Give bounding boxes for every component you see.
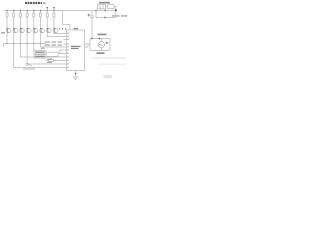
resistor R4 bbox=[26, 11, 28, 28]
wire column1 to bus bbox=[6, 33, 8, 43]
transistor VT7 bbox=[47, 28, 52, 33]
wire secondary line bbox=[96, 11, 116, 18]
IC U1 inner text bbox=[71, 46, 81, 49]
resistor R7 bbox=[46, 11, 48, 28]
wire column7 L-route to IC pin bbox=[47, 33, 63, 36]
AC source plus sign bbox=[106, 42, 108, 44]
resistor R5 bbox=[33, 11, 35, 28]
wire column2 L-route to IC pin bbox=[14, 33, 64, 67]
AC source label above bbox=[98, 34, 107, 36]
node junction dots on bus bbox=[6, 10, 105, 11]
wire regulator output bbox=[114, 6, 116, 15]
wire column5 to label box bbox=[33, 33, 35, 50]
wire box K1 to IC pin bbox=[46, 50, 64, 52]
node dot regulator output bbox=[115, 9, 117, 11]
AC loop right wire bbox=[109, 39, 111, 51]
transistor VT5 bbox=[33, 28, 38, 33]
node dots atop riser stubs bbox=[47, 7, 55, 8]
label output text bbox=[112, 15, 128, 16]
wire VCC drop to IC bbox=[63, 11, 71, 31]
label box K2 bbox=[34, 55, 46, 58]
wire left common bus bbox=[4, 44, 47, 47]
label box K1 bbox=[34, 51, 46, 54]
AC loop bottom wire bbox=[90, 50, 110, 52]
IC U1 pin number marks bbox=[67, 33, 68, 68]
wire IC ground stem bbox=[75, 71, 77, 78]
IC U1 box bbox=[67, 30, 85, 71]
AC loop top wire bbox=[90, 38, 110, 40]
title text bbox=[25, 2, 45, 4]
node dots on common bus bbox=[6, 43, 41, 44]
resistor small on bottom run bbox=[49, 60, 54, 62]
transformer T1 text above bbox=[99, 2, 110, 4]
resistor R1 bbox=[6, 11, 8, 28]
watermark faint streak row1 bbox=[92, 57, 126, 59]
transistor VT1 bbox=[6, 28, 11, 33]
node dot on ground stem bbox=[75, 73, 76, 74]
transformer T1 box bbox=[98, 4, 106, 9]
ground symbol bbox=[73, 77, 78, 79]
label VT designator text bbox=[1, 32, 5, 33]
transistor VT6 bbox=[40, 28, 45, 33]
net label texts near IC left bbox=[41, 41, 62, 63]
capacitor C1 plus sign bbox=[88, 14, 90, 16]
node dot on secondary line bbox=[104, 17, 105, 18]
switch S1 on bottom line bbox=[26, 63, 32, 66]
capacitor C1 bbox=[90, 11, 94, 39]
node dots on AC loop bbox=[91, 38, 100, 39]
wire T1 legs to bus bbox=[101, 9, 106, 11]
AC loop left wire bbox=[89, 39, 91, 51]
wire between T1 and regulator bbox=[106, 5, 108, 7]
resistor R8 bbox=[53, 11, 55, 28]
transistor VT8 bbox=[53, 28, 58, 33]
IC top pin number dots bbox=[59, 28, 66, 29]
IC U1 right pin stubs bbox=[85, 44, 91, 47]
regulator box bbox=[108, 4, 115, 8]
wire bottom run to IC pin bbox=[46, 60, 64, 62]
AC source inner mark bbox=[99, 44, 100, 45]
label text below switch bbox=[23, 68, 35, 69]
wire riser stub above bus col7 bbox=[46, 8, 48, 11]
wire box K2 to IC pin bbox=[46, 54, 64, 57]
watermark logo blob bbox=[104, 75, 113, 78]
AC source circle bbox=[98, 39, 104, 51]
resistor R2 bbox=[13, 11, 15, 28]
IC U1 left pin stubs bbox=[64, 34, 67, 68]
wire column3 L-route to IC pin bbox=[20, 33, 63, 57]
watermark faint streak row2 bbox=[98, 64, 126, 65]
transistor VT3 bbox=[20, 28, 25, 33]
wire column4 L-route to IC pin bbox=[27, 33, 63, 64]
resistor R6 bbox=[40, 11, 42, 28]
resistor R3 bbox=[19, 11, 21, 28]
transistor VT2 bbox=[13, 28, 18, 33]
wire column8 L-route to IC pin bbox=[54, 32, 64, 34]
wire top power bus bbox=[4, 10, 116, 12]
transistor VT4 bbox=[26, 28, 31, 33]
IC U1 label above bbox=[74, 28, 79, 29]
wire column6 L-route to IC pin bbox=[41, 33, 64, 47]
wire riser stub above bus col8 bbox=[53, 8, 55, 11]
AC source label below bbox=[97, 52, 105, 54]
node dark ticks at transistor tops bbox=[7, 28, 55, 29]
